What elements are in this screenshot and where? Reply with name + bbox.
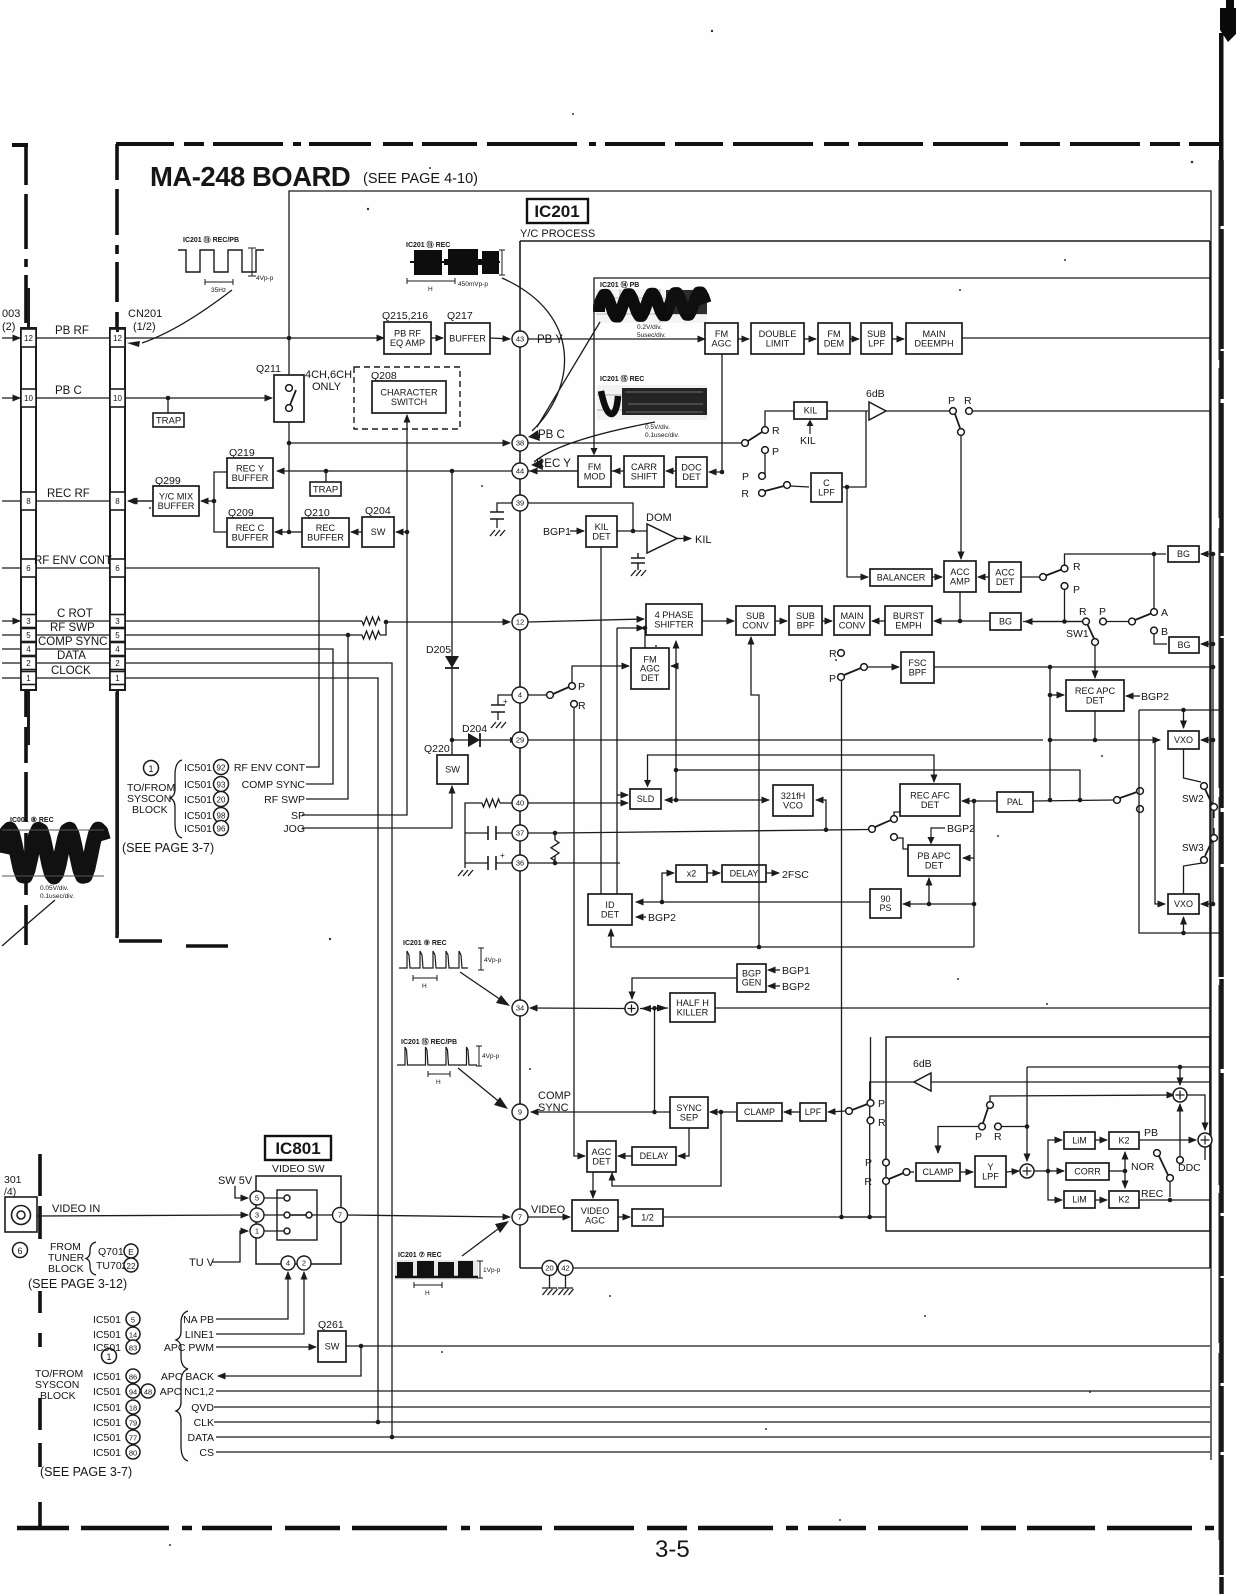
wire x2 feed riser xyxy=(662,873,674,902)
wire P contact to clamp2 top xyxy=(938,1127,979,1154)
ground pin4 cap xyxy=(491,722,506,728)
TU702 row xyxy=(96,1258,138,1272)
switch Q261 xyxy=(318,1319,346,1362)
svg-text:PB Y: PB Y xyxy=(537,334,563,346)
switch P/R video in (left) xyxy=(846,1098,886,1129)
svg-text:AMP: AMP xyxy=(950,576,970,586)
svg-text:(2): (2) xyxy=(2,321,15,333)
diode D205 xyxy=(426,471,459,755)
brace syscon upper xyxy=(170,760,182,838)
BGP2 into ID DET xyxy=(636,912,676,924)
svg-text:1: 1 xyxy=(26,674,31,683)
svg-text:SW2: SW2 xyxy=(1182,794,1204,805)
wire fan to CORR xyxy=(1048,1170,1064,1172)
Y processing sub-block outline xyxy=(886,1037,1210,1231)
svg-text:ONLY: ONLY xyxy=(312,381,342,393)
block DOC DET xyxy=(676,457,707,487)
junction DATA riser xyxy=(390,1435,395,1440)
svg-text:6dB: 6dB xyxy=(866,388,885,400)
wire SW to REC BUFFER xyxy=(351,531,362,533)
svg-text:AGC: AGC xyxy=(585,1215,605,1225)
wire 003 to CN201 row 4 xyxy=(36,648,110,650)
junction pin36 res xyxy=(553,861,558,866)
svg-text:IC501: IC501 xyxy=(184,794,212,806)
svg-text:Q211: Q211 xyxy=(256,363,281,375)
block BURST EMPH xyxy=(885,606,932,635)
svg-text:DET: DET xyxy=(921,800,940,810)
switch after PAL xyxy=(1114,788,1144,813)
wire video riser x841 xyxy=(841,681,843,1218)
block Y LPF xyxy=(975,1156,1006,1187)
svg-text:1: 1 xyxy=(148,764,153,774)
wire PB Y row xyxy=(528,338,705,340)
svg-text:CONV: CONV xyxy=(742,620,769,630)
svg-text:2: 2 xyxy=(302,1259,306,1268)
block FM MOD xyxy=(578,456,611,487)
block K2a xyxy=(1109,1132,1139,1149)
svg-text:Q215,216: Q215,216 xyxy=(382,310,428,322)
svg-text:SW1: SW1 xyxy=(1066,628,1089,640)
svg-text:TU702: TU702 xyxy=(96,1260,128,1272)
svg-text:94: 94 xyxy=(129,1388,137,1397)
wire BUFFER to pin43 xyxy=(490,338,510,339)
svg-text:10: 10 xyxy=(24,394,33,403)
wire DATA row xyxy=(125,663,392,1437)
svg-text:5: 5 xyxy=(255,1194,259,1203)
buffer Q210 REC xyxy=(302,507,349,547)
svg-text:IC201 ⑬ REC/PB: IC201 ⑬ REC/PB xyxy=(183,235,239,244)
waveform photo IC201 (7) REC xyxy=(395,1251,501,1297)
IC801 pin 7 xyxy=(333,1208,348,1223)
svg-text:P: P xyxy=(975,1131,982,1143)
switch REC AFC / PB APC select xyxy=(869,816,898,841)
svg-text:BGP1: BGP1 xyxy=(782,965,810,977)
IC801 switch contacts xyxy=(284,1195,312,1234)
wire A up to BG1 row xyxy=(1153,554,1155,609)
svg-text:LPF: LPF xyxy=(805,1107,822,1117)
BGP2 label above PB APC DET xyxy=(928,823,976,845)
wire x1027 down to adder xyxy=(1026,1067,1028,1161)
svg-text:A: A xyxy=(1161,607,1168,619)
waveform photo IC201 (15) REC xyxy=(597,374,707,439)
svg-text:DATA: DATA xyxy=(57,650,86,662)
arrow into BG1 right edge xyxy=(1201,553,1213,555)
border dash fragments near syscon corner xyxy=(117,692,228,946)
svg-text:IC501: IC501 xyxy=(93,1371,121,1383)
switch SW1 xyxy=(1066,606,1106,645)
block SUB BPF xyxy=(789,606,822,635)
wire ACC DET to ACC AMP xyxy=(978,576,989,578)
svg-text:SW: SW xyxy=(371,527,386,537)
svg-text:IC501: IC501 xyxy=(184,810,212,822)
wire PB C to pin38 xyxy=(289,442,510,444)
note circled 1 lower xyxy=(102,1349,117,1364)
junction apc pwm xyxy=(359,1344,364,1349)
ground pin39 cap xyxy=(490,530,505,536)
wire CLAMP2 to Y LPF xyxy=(960,1171,973,1173)
connector CN201 strip xyxy=(110,328,125,690)
wire B contact to PB APC DET xyxy=(898,838,909,849)
wire 003 to CN201 row 2 xyxy=(36,662,110,664)
svg-text:R: R xyxy=(829,648,837,660)
junction FM AGC DET top xyxy=(643,626,648,631)
IC201 pin 43 xyxy=(512,331,528,347)
junction recapc row740 xyxy=(1093,738,1098,743)
IC201 pin 36 xyxy=(512,855,528,871)
svg-text:R: R xyxy=(878,1117,886,1129)
svg-text:P: P xyxy=(772,446,779,458)
BGP2 into BGP GEN xyxy=(768,981,810,993)
wire row621 extend xyxy=(1023,621,1083,623)
block LiM1 xyxy=(1064,1132,1095,1149)
block SUB CONV xyxy=(736,606,775,635)
switch SW3 xyxy=(1182,835,1217,864)
svg-text:DEM: DEM xyxy=(824,338,844,348)
block DELAY sync xyxy=(632,1147,676,1165)
svg-text:K2: K2 xyxy=(1118,1195,1129,1205)
svg-text:3: 3 xyxy=(255,1211,259,1220)
junction x974 row800 xyxy=(972,799,977,804)
svg-text:SW: SW xyxy=(445,765,460,775)
junction pin37 res xyxy=(553,831,558,836)
svg-text:R: R xyxy=(1079,606,1087,618)
wire CLK bus xyxy=(214,1421,1210,1423)
wire DOUBLE LIMIT to FM DEM xyxy=(804,338,816,340)
wire SW1 down to REC APC DET xyxy=(1094,646,1096,679)
svg-text:Q261: Q261 xyxy=(318,1319,344,1331)
svg-text:R: R xyxy=(1073,561,1081,573)
adder right B xyxy=(1198,1133,1212,1147)
svg-text:P: P xyxy=(1099,606,1106,618)
svg-text:IC501: IC501 xyxy=(93,1402,121,1414)
svg-text:Q217: Q217 xyxy=(447,310,473,322)
ground hatch pin20 xyxy=(543,1289,558,1295)
wire BG2 to BURST EMPH xyxy=(934,620,990,622)
block LPF sync xyxy=(800,1103,826,1121)
brace tuner xyxy=(86,1242,96,1275)
connector 003 strip xyxy=(21,328,36,690)
svg-text:IC501: IC501 xyxy=(93,1314,121,1326)
wire into FSC BPF xyxy=(867,666,899,668)
svg-text:COMP: COMP xyxy=(538,1090,571,1102)
svg-text:80: 80 xyxy=(129,1449,137,1458)
svg-text:LPF: LPF xyxy=(868,338,885,348)
scan edge dark band xyxy=(1219,33,1224,163)
svg-text:VIDEO: VIDEO xyxy=(531,1204,566,1216)
svg-text:IC501: IC501 xyxy=(93,1432,121,1444)
capacitor below DOM xyxy=(631,553,645,570)
svg-text:0.05V/div.: 0.05V/div. xyxy=(40,885,69,892)
block DOUBLE LIMIT xyxy=(751,323,804,354)
arrow into BG3 right xyxy=(1201,643,1213,645)
wire P contact down to C LPF switch xyxy=(764,453,766,477)
stub into 003 pin 5 xyxy=(2,634,20,636)
svg-text:92: 92 xyxy=(217,764,226,773)
svg-text:Y/C PROCESS: Y/C PROCESS xyxy=(520,228,595,240)
stub into 003 pin 8 xyxy=(2,500,20,502)
wire JOG to Q220 xyxy=(302,786,452,828)
svg-text:IC201 ⑭ PB: IC201 ⑭ PB xyxy=(600,280,639,289)
wire node down to row740 xyxy=(1049,695,1051,800)
svg-text:PB C: PB C xyxy=(538,429,565,441)
wire ACC AMP down xyxy=(959,592,961,621)
BGP1 into BGP GEN xyxy=(768,965,810,977)
block ACC DET xyxy=(989,562,1021,592)
svg-text:4: 4 xyxy=(26,645,31,654)
svg-text:PB: PB xyxy=(1144,1127,1158,1139)
svg-text:BGP2: BGP2 xyxy=(1141,691,1169,703)
junction acc P row621 xyxy=(1062,619,1067,624)
wire CORR out xyxy=(1109,1170,1125,1172)
wire pin7 to switch xyxy=(312,1214,333,1216)
wire half out xyxy=(663,1216,886,1218)
wire NA PB to pin4 xyxy=(216,1272,288,1319)
list IC501 pin 96 JOG xyxy=(184,821,305,836)
wire adder B out xyxy=(1204,1147,1206,1160)
svg-text:9: 9 xyxy=(518,1108,522,1117)
svg-text:29: 29 xyxy=(516,736,524,745)
svg-text:6: 6 xyxy=(17,1246,22,1256)
resistor on C ROT line xyxy=(362,617,380,625)
svg-text:BGP1: BGP1 xyxy=(543,526,571,538)
trap T1 xyxy=(153,413,184,427)
wire halfh node down to sync xyxy=(654,1009,656,1113)
IC201 pin 4 xyxy=(512,687,528,703)
svg-text:2: 2 xyxy=(115,659,120,668)
wire BALANCER to ACC AMP xyxy=(932,576,942,578)
svg-text:37: 37 xyxy=(516,829,524,838)
block HALF H KILLER xyxy=(670,993,715,1022)
wire RF ENV CONT xyxy=(125,568,319,767)
svg-text:0.2V/div.: 0.2V/div. xyxy=(637,324,662,331)
block VXO2 xyxy=(1168,894,1199,914)
list IC501 pin 18 QVD xyxy=(93,1400,214,1414)
svg-text:IC501: IC501 xyxy=(93,1386,121,1398)
svg-text:Q701: Q701 xyxy=(98,1246,124,1258)
svg-text:SW 5V: SW 5V xyxy=(218,1175,253,1187)
block PB APC DET xyxy=(908,845,960,876)
wire video agc row xyxy=(528,1216,570,1218)
svg-text:BUFFER: BUFFER xyxy=(232,532,269,542)
wire video row extension xyxy=(842,1216,887,1218)
svg-text:EQ AMP: EQ AMP xyxy=(390,338,425,348)
wire 003 to CN201 row 12 xyxy=(36,337,110,339)
svg-text:NOR: NOR xyxy=(1131,1161,1155,1173)
svg-text:IC201 ⑬ REC: IC201 ⑬ REC xyxy=(406,240,450,249)
svg-text:2: 2 xyxy=(26,659,31,668)
wire buffers merge to Y/C MIX xyxy=(214,472,227,532)
svg-text:DELAY: DELAY xyxy=(640,1151,669,1161)
svg-text:93: 93 xyxy=(217,781,226,790)
svg-text:R: R xyxy=(994,1131,1002,1143)
list IC501 pin 5 NA PB xyxy=(93,1312,214,1326)
wire x617 into SLD xyxy=(617,794,628,796)
wire C LPF out up xyxy=(842,411,866,487)
wire acc switch common xyxy=(1021,576,1040,578)
junction halfh node xyxy=(652,1006,657,1011)
wire 6dB2 out loop xyxy=(870,1082,914,1217)
svg-text:MA-248 BOARD: MA-248 BOARD xyxy=(150,161,350,192)
switch R/P acc det input xyxy=(1040,561,1081,596)
svg-text:TRAP: TRAP xyxy=(313,484,338,495)
junction C ROT / RF SWP xyxy=(384,620,389,625)
wire IC801 out to IC201 pin7 xyxy=(347,1215,510,1217)
junction row740 x1155 xyxy=(1153,738,1158,743)
junction video to y block xyxy=(839,1215,844,1220)
wire adder-halfh bidirectional xyxy=(640,1007,668,1010)
wire aux into 4PS xyxy=(617,627,644,629)
wire 003 to CN201 row 8 xyxy=(36,500,110,502)
wire REC RF into CN201 pin8 xyxy=(128,500,153,502)
junction x2 feed xyxy=(660,900,665,905)
wire P up into block xyxy=(870,1037,872,1099)
wire y1067 row xyxy=(1027,1066,1210,1068)
svg-text:BG: BG xyxy=(1177,549,1190,559)
svg-text:34: 34 xyxy=(516,1004,524,1013)
junction edge BG3 xyxy=(1211,642,1216,647)
svg-text:SP: SP xyxy=(291,810,305,822)
block BG2 xyxy=(990,613,1021,630)
svg-text:1/2: 1/2 xyxy=(641,1213,654,1223)
wire adder A out xyxy=(1187,1095,1205,1130)
svg-text:APC BACK: APC BACK xyxy=(161,1371,214,1383)
list IC501 pin 83 APC PWM xyxy=(93,1340,214,1354)
svg-text:LiM: LiM xyxy=(1072,1195,1087,1205)
IC801 pin 2 xyxy=(297,1256,311,1270)
stub into 003 pin 3 xyxy=(2,620,20,622)
wire x676 to FM AGC DET xyxy=(671,665,676,667)
wire LINE1 to pin2 xyxy=(216,1272,304,1334)
capacitor at pin36 xyxy=(465,851,512,870)
Q211 switch contacts xyxy=(286,385,296,412)
wire row800 into VCO xyxy=(676,799,769,801)
svg-text:SW: SW xyxy=(325,1342,340,1352)
list IC501 pin 20 RF SWP xyxy=(184,792,305,807)
junction FM AGC / DOC DET xyxy=(720,470,725,475)
buffer Q217 xyxy=(445,310,490,354)
svg-text:8: 8 xyxy=(115,497,120,506)
wire pin40 to SLD xyxy=(528,802,628,804)
page border left dash-dot lower xyxy=(38,1154,42,1528)
junction C LPF out to balancer xyxy=(845,485,850,490)
svg-text:5usec/div.: 5usec/div. xyxy=(637,332,666,339)
wire R out to right edge xyxy=(973,410,1211,412)
svg-text:NA PB: NA PB xyxy=(183,1314,214,1326)
wire ddc circle up xyxy=(1179,1104,1181,1156)
wire balancer feed xyxy=(847,487,868,577)
stub TRAP1 xyxy=(167,398,169,413)
wire KIL to 6dB xyxy=(827,410,868,412)
list IC501 pin 80 CS xyxy=(93,1445,214,1459)
transistor Q211 switch box xyxy=(256,363,304,422)
wire sync sep down to delay xyxy=(678,1128,689,1156)
right edge wire x1213 xyxy=(1212,740,1214,904)
junction RF SWP list xyxy=(346,633,351,638)
svg-text:DOM: DOM xyxy=(646,512,672,524)
FM loop wire y278 into FM MOD xyxy=(594,278,1210,452)
resistor vertical between 37 and 36 xyxy=(528,833,559,863)
svg-text:SW3: SW3 xyxy=(1182,843,1204,854)
svg-text:BLOCK: BLOCK xyxy=(132,804,168,816)
wire x676 vertical xyxy=(675,641,677,800)
svg-text:BPF: BPF xyxy=(797,620,815,630)
Q701 row xyxy=(98,1244,138,1258)
IC801 outer box xyxy=(256,1176,341,1264)
svg-text:PB RF: PB RF xyxy=(55,325,89,337)
wire delay to agc det xyxy=(618,1155,632,1157)
IC201 pin 7 xyxy=(512,1209,528,1225)
wire APC PWM out xyxy=(346,1345,1210,1347)
block LiM2 xyxy=(1064,1191,1095,1208)
wire LiM1 to K2a xyxy=(1095,1139,1107,1141)
svg-text:5: 5 xyxy=(115,631,120,640)
svg-text:20: 20 xyxy=(545,1264,553,1273)
svg-text:CLAMP: CLAMP xyxy=(922,1167,953,1177)
svg-text:4: 4 xyxy=(115,645,120,654)
block ID DET xyxy=(588,894,632,925)
arrow down into VXO1 top xyxy=(1183,710,1185,728)
svg-text:BGP2: BGP2 xyxy=(782,981,810,993)
svg-text:14: 14 xyxy=(129,1331,137,1340)
svg-text:DEEMPH: DEEMPH xyxy=(914,338,953,348)
switch P/R after 6dB xyxy=(948,395,972,435)
wire HALF H out to edge xyxy=(715,1007,1210,1009)
wire fan to LiM1 xyxy=(1048,1140,1062,1171)
wire BURST EMPH to MAIN CONV xyxy=(872,620,885,622)
wire MAIN DEEMPH to right edge xyxy=(962,337,1210,339)
svg-text:DET: DET xyxy=(996,577,1015,587)
page border left dash-dot upper xyxy=(24,145,28,948)
junction PB RF rail xyxy=(287,336,292,341)
block BG3 xyxy=(1169,637,1199,653)
page border bottom dash-dot xyxy=(17,1526,1214,1530)
svg-text:LPF: LPF xyxy=(982,1171,999,1181)
wire P up to FM AGC DET xyxy=(572,666,629,682)
outer thin signal rail xyxy=(289,191,1211,1460)
svg-text:DET: DET xyxy=(682,472,701,482)
svg-text:COMP SYNC: COMP SYNC xyxy=(38,636,107,648)
svg-text:4Vp-p: 4Vp-p xyxy=(482,1053,500,1060)
junction id feed x759 xyxy=(757,945,762,950)
svg-text:98: 98 xyxy=(217,812,226,821)
wire pin36 right xyxy=(555,862,620,864)
junction y1067 x1183 xyxy=(1178,1065,1183,1070)
svg-text:CORR: CORR xyxy=(1074,1167,1101,1177)
svg-text:SLD: SLD xyxy=(637,794,655,804)
svg-text:COMP SYNC: COMP SYNC xyxy=(242,779,306,791)
arrow up into VXO2 bottom xyxy=(1183,917,1185,933)
svg-text:BLOCK: BLOCK xyxy=(40,1390,76,1402)
wire 003 to CN201 row 10 xyxy=(36,397,110,399)
svg-text:R: R xyxy=(578,700,586,712)
svg-text:5: 5 xyxy=(26,631,31,640)
wire DELAY to 2FSC xyxy=(766,872,779,874)
wire KIL DET to DOM xyxy=(617,530,647,532)
junction row770 drop xyxy=(1078,798,1083,803)
junction ACC AMP / BG row xyxy=(958,619,963,624)
svg-text:CS: CS xyxy=(199,1447,214,1459)
svg-text:10: 10 xyxy=(113,394,122,403)
junction Q211 to 38 xyxy=(287,441,292,446)
arrow SW1-R into BG2 xyxy=(1025,621,1082,623)
wire Q211 down to PB C node xyxy=(288,422,290,532)
svg-text:P: P xyxy=(865,1157,872,1169)
wire id det feed row xyxy=(611,929,974,947)
svg-text:SHIFT: SHIFT xyxy=(631,471,658,481)
svg-text:REC RF: REC RF xyxy=(47,488,90,500)
svg-text:x2: x2 xyxy=(687,869,697,879)
wire SP branch to Q204 xyxy=(396,531,407,533)
